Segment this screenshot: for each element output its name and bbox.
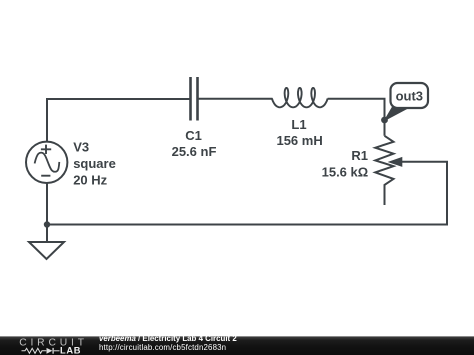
svg-text:25.6 nF: 25.6 nF (172, 144, 217, 159)
ground symbol (29, 242, 64, 259)
logo resistor zigzag (22, 348, 47, 353)
V3 minus sign (41, 175, 50, 177)
wire top-left vertical (source top to top rail) (46, 99, 48, 142)
wiper wire (arrow shaft to right, down, bottom rail) (47, 162, 447, 225)
resistor R1 zigzag (375, 136, 393, 205)
V3 sine wave (35, 153, 60, 172)
V3 plus sign (41, 145, 51, 154)
svg-text:R1: R1 (351, 148, 368, 163)
voltage source V3 circle (26, 142, 67, 183)
svg-text:15.6 kΩ: 15.6 kΩ (322, 164, 369, 179)
wire top rail left segment (corner to capacitor left plate) (46, 98, 190, 100)
footer logo (0, 0, 95, 355)
svg-text:L1: L1 (291, 117, 306, 132)
wire inductor to top-right corner and down to node (328, 99, 385, 136)
svg-text:156 mH: 156 mH (276, 133, 322, 148)
footer bar (0, 336, 474, 355)
wire source bottom to junction to ground (46, 183, 48, 242)
inductor L1 coil (272, 88, 328, 107)
out3 callout tail (385, 106, 408, 121)
footer credit text (99, 335, 237, 352)
junction dot at ground node (44, 221, 50, 227)
R1 wiper arrowhead (388, 157, 403, 167)
svg-text:out3: out3 (396, 89, 423, 104)
capacitor C1 right plate (196, 77, 199, 121)
junction dot at out3 node (381, 117, 388, 124)
svg-text:C1: C1 (185, 128, 202, 143)
capacitor C1 left plate (189, 77, 192, 121)
out3 callout box (391, 83, 429, 108)
svg-text:LAB: LAB (60, 345, 81, 355)
logo diode (47, 348, 53, 354)
wire capacitor to inductor (199, 98, 273, 100)
